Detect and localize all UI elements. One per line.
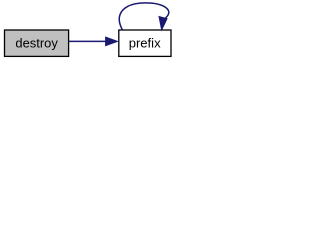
svg-text:prefix: prefix [129,35,161,50]
arrowhead destroy->prefix [106,37,118,46]
svg-text:destroy: destroy [15,35,58,50]
node prefix [119,30,171,56]
wire edge destroy->prefix [69,40,106,42]
node destroy [5,30,69,56]
wire self-loop prefix->prefix [119,3,168,30]
arrowhead self-loop [159,17,167,30]
